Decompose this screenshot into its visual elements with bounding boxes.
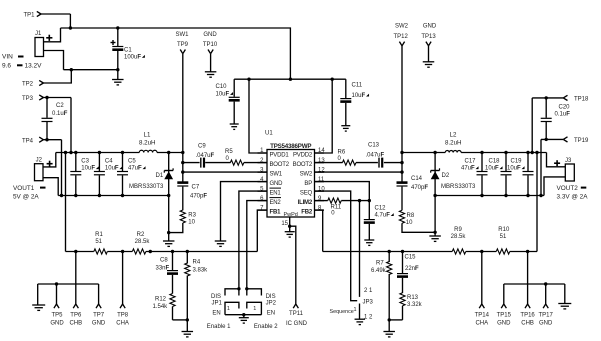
wire rail 2 to ground <box>564 284 566 304</box>
node TP8 tap <box>121 250 124 253</box>
svg-text:EN: EN <box>212 311 220 317</box>
svg-text:JP1: JP1 <box>211 300 222 306</box>
wire EN2 pin 6 <box>247 201 267 289</box>
node R4 tap <box>186 250 189 253</box>
svg-text:C19: C19 <box>511 158 523 164</box>
connector J1 <box>35 31 52 56</box>
ground rail 2 <box>558 304 571 309</box>
svg-text:51: 51 <box>95 239 102 245</box>
ground TP13 <box>423 62 435 67</box>
wire SW1 vertical <box>182 54 184 182</box>
node SW2 at VOUT2 wire <box>400 151 403 154</box>
svg-text:JP2: JP2 <box>266 300 277 306</box>
svg-text:JP3: JP3 <box>363 300 374 306</box>
node pin 1 riser <box>247 78 250 81</box>
svg-text:TP6: TP6 <box>70 313 82 319</box>
capacitor C11 <box>340 79 369 126</box>
svg-text:TP14: TP14 <box>475 313 490 319</box>
svg-text:TP16: TP16 <box>520 313 535 319</box>
svg-text:R1: R1 <box>95 232 103 238</box>
wire J2 plus riser <box>43 153 56 167</box>
node divider 2 foot <box>388 318 391 321</box>
svg-text:R4: R4 <box>193 260 201 266</box>
svg-text:22nF: 22nF <box>405 266 419 272</box>
wire TP10 to ground <box>210 54 212 72</box>
ground C11 <box>341 126 350 131</box>
node R7 tap <box>388 250 391 253</box>
wire SEQ pin 10 <box>315 191 358 301</box>
wire D1 anode to ground <box>168 196 170 242</box>
capacitor C17 <box>461 151 488 197</box>
label VIN <box>2 54 42 70</box>
svg-text:L2: L2 <box>450 132 457 139</box>
svg-text:D1: D1 <box>156 173 164 179</box>
svg-text:VIN: VIN <box>2 54 13 61</box>
resistor R8 <box>399 210 414 226</box>
wire VOUT2 return rail <box>435 195 544 197</box>
wire rail 1 to ground <box>37 284 39 305</box>
svg-text:BOOT2: BOOT2 <box>270 162 290 168</box>
test point TP9 <box>175 32 189 54</box>
wire pin 15 PowerPAD <box>281 217 289 227</box>
wire C1 to ground <box>117 70 119 80</box>
svg-text:MBRS330T3: MBRS330T3 <box>129 184 164 190</box>
svg-text:SW1: SW1 <box>175 32 189 38</box>
svg-text:R5: R5 <box>225 149 233 155</box>
svg-text:TP11: TP11 <box>289 311 304 317</box>
wire ILIM2 pin 9 <box>315 200 370 202</box>
wire divider 2 to ground <box>388 320 390 332</box>
svg-text:EN1: EN1 <box>270 190 282 196</box>
svg-text:C15: C15 <box>405 254 417 260</box>
svg-text:TP2: TP2 <box>22 82 34 88</box>
svg-text:28.5k: 28.5k <box>135 239 151 245</box>
svg-text:C14: C14 <box>411 176 423 182</box>
svg-text:DIS: DIS <box>211 294 221 300</box>
svg-text:TP18: TP18 <box>574 97 589 103</box>
svg-text:47uF: 47uF <box>128 166 142 172</box>
node BOOT2 at SW2 <box>400 161 403 164</box>
svg-text:J1: J1 <box>35 31 42 37</box>
wire VOUT1 return rail <box>58 195 169 197</box>
svg-text:U1: U1 <box>265 131 273 137</box>
test point TP15 <box>497 284 512 327</box>
svg-text:8.2uH: 8.2uH <box>139 139 156 146</box>
wire VOUT2 rail <box>402 152 547 154</box>
svg-text:R3: R3 <box>188 212 196 218</box>
svg-text:DIS: DIS <box>266 294 276 300</box>
svg-text:GND: GND <box>497 321 511 327</box>
svg-text:EN: EN <box>267 311 275 317</box>
svg-text:BP: BP <box>304 181 312 187</box>
svg-text:TP10: TP10 <box>203 42 218 48</box>
svg-text:VOUT2: VOUT2 <box>557 185 579 192</box>
wire J1 plus to VIN rail <box>44 28 61 42</box>
capacitor C2 <box>42 98 68 140</box>
svg-text:10: 10 <box>406 220 413 226</box>
wire PVDD rail <box>234 78 346 80</box>
wire TP3 to VOUT1 rail <box>43 98 71 153</box>
svg-text:3.83k: 3.83k <box>193 267 209 273</box>
label VOUT2 <box>557 185 589 200</box>
test point TP16 <box>520 252 535 327</box>
svg-text:C2: C2 <box>56 103 64 109</box>
jumper JP3 <box>353 288 373 321</box>
capacitor C7 <box>177 183 207 211</box>
wire TP13 to ground <box>428 46 430 62</box>
resistor R7 <box>371 252 392 320</box>
wire FB1 row <box>66 251 258 253</box>
node SW1 at BOOT wire <box>181 161 184 164</box>
svg-text:C12: C12 <box>375 206 387 212</box>
svg-text:0.1uF: 0.1uF <box>555 111 571 117</box>
svg-text:CHB: CHB <box>521 321 534 327</box>
svg-text:SW1: SW1 <box>270 171 283 177</box>
test point TP12 <box>394 24 409 46</box>
svg-text:PVDD1: PVDD1 <box>270 152 290 158</box>
capacitor C13 <box>366 143 385 168</box>
capacitor C4 <box>94 151 123 197</box>
diode D2 <box>431 151 476 197</box>
svg-text:TP7: TP7 <box>93 313 105 319</box>
node BP C12 <box>368 199 371 202</box>
capacitor C20 <box>541 98 570 139</box>
svg-text:0.1uF: 0.1uF <box>52 111 68 117</box>
svg-text:Enable 1: Enable 1 <box>207 324 231 330</box>
resistor R11 <box>328 198 342 217</box>
svg-text:GND: GND <box>203 32 217 38</box>
ground JP3 <box>355 304 366 325</box>
svg-text:Sequence: Sequence <box>330 309 354 315</box>
wire TP19 to return <box>541 139 563 195</box>
wire FB2 pin 8 <box>315 210 323 251</box>
svg-text:C20: C20 <box>559 104 571 110</box>
svg-text:CHA: CHA <box>116 321 129 327</box>
resistor R4 <box>185 252 208 320</box>
node C20 bottom <box>545 138 548 141</box>
svg-text:C18: C18 <box>489 158 501 164</box>
node C8 tap <box>171 250 174 253</box>
node FB2 tap <box>535 151 538 154</box>
capacitor C10 <box>216 79 240 124</box>
svg-text:SEQ: SEQ <box>300 190 313 196</box>
wire GND pin 4 <box>221 182 268 241</box>
node pin 15 <box>288 225 291 228</box>
svg-text:TP5: TP5 <box>51 313 63 319</box>
svg-text:GND: GND <box>270 181 284 187</box>
capacitor C15 <box>397 252 419 294</box>
svg-text:PVDD2: PVDD2 <box>293 152 313 158</box>
svg-text:1: 1 <box>353 307 356 313</box>
svg-text:C13: C13 <box>368 143 380 149</box>
node VIN at PVDD rail <box>289 78 292 81</box>
wire VOUT1 top rail <box>56 152 183 154</box>
svg-text:10uF: 10uF <box>216 91 230 97</box>
node SW1 at VOUT wire <box>181 151 184 154</box>
wire D2 anode to ground <box>434 196 436 237</box>
node TP14 tap <box>480 250 483 253</box>
ground FB1 divider <box>182 332 194 337</box>
node pin 14 riser <box>331 78 334 81</box>
wire TP4 to return <box>43 140 61 196</box>
svg-text:C11: C11 <box>352 82 363 88</box>
svg-text:.047uF: .047uF <box>366 152 385 158</box>
svg-text:R13: R13 <box>407 295 419 301</box>
wire SW2 vertical <box>401 46 403 182</box>
svg-text:TPS54386PWP: TPS54386PWP <box>270 143 311 150</box>
resistor R3 <box>180 210 196 226</box>
ground C10 <box>230 124 239 129</box>
node C15 tap <box>401 250 404 253</box>
svg-text:EN2: EN2 <box>270 200 282 206</box>
svg-text:10: 10 <box>188 220 195 226</box>
svg-text:L1: L1 <box>144 132 151 139</box>
wire input return rail <box>64 69 118 71</box>
connector J3 <box>554 158 574 181</box>
inductor L2 <box>445 132 462 153</box>
svg-text:TP19: TP19 <box>574 138 589 144</box>
wire J3 plus riser <box>547 153 566 167</box>
node TP16 tap <box>526 250 529 253</box>
svg-text:C7: C7 <box>192 185 200 191</box>
label Sequence <box>330 309 354 315</box>
resistor R10 <box>496 227 510 254</box>
node C1 return junction <box>116 68 119 71</box>
wire R12 to R4 foot <box>173 319 188 321</box>
svg-text:C5: C5 <box>128 158 136 164</box>
svg-text:C10: C10 <box>216 84 228 90</box>
svg-text:C8: C8 <box>160 257 168 263</box>
svg-text:3.3V @ 2A: 3.3V @ 2A <box>557 193 589 200</box>
label Enable 2 <box>254 324 278 330</box>
label VOUT1 <box>13 185 46 200</box>
svg-text:R6: R6 <box>338 150 346 156</box>
test point TP14 <box>475 252 490 327</box>
capacitor C12 <box>364 201 394 240</box>
svg-text:33nF: 33nF <box>156 265 170 271</box>
svg-text:SW2: SW2 <box>395 24 409 30</box>
diode D1 <box>129 151 173 197</box>
svg-text:J3: J3 <box>565 158 572 164</box>
resistor R6 <box>338 150 356 166</box>
svg-text:TP13: TP13 <box>421 34 436 40</box>
svg-text:.047uF: .047uF <box>196 153 215 159</box>
ground power stage 2 <box>429 236 441 241</box>
svg-text:TP15: TP15 <box>497 313 512 319</box>
node R8 at D2 ground leg <box>433 231 436 234</box>
svg-text:FB1: FB1 <box>270 209 282 215</box>
svg-text:VOUT1: VOUT1 <box>13 185 35 192</box>
ground rail 1 <box>32 305 45 310</box>
svg-text:4.7uF: 4.7uF <box>375 213 391 219</box>
svg-text:10uF: 10uF <box>105 166 119 172</box>
node TP6 tap <box>74 250 77 253</box>
wire BP branch to JP3 <box>359 201 361 297</box>
capacitor C18 <box>485 151 512 197</box>
svg-text:8.2uH: 8.2uH <box>445 139 462 146</box>
wire BOOT2 pin 13 <box>315 162 403 164</box>
svg-text:R12: R12 <box>155 297 167 303</box>
capacitor C19 <box>507 151 534 197</box>
wire measurement rail 2 <box>504 283 565 285</box>
test point TP13 <box>421 24 437 46</box>
ground power stage 1 <box>163 241 175 246</box>
svg-text:10uF: 10uF <box>352 93 366 99</box>
wire EN1 pin 5 <box>239 191 267 289</box>
wire VIN top rail <box>61 28 291 79</box>
wire FB1 pin 7 <box>257 210 267 251</box>
node R2 FB1 <box>149 250 152 253</box>
wire J1 minus to return rail <box>44 51 64 70</box>
node R4 foot <box>186 318 189 321</box>
node BP branch <box>358 199 361 202</box>
connector J2 <box>35 158 53 181</box>
svg-text:BOOT2: BOOT2 <box>293 162 313 168</box>
test point TP6 <box>69 252 82 327</box>
svg-text:TP8: TP8 <box>117 313 129 319</box>
svg-text:47uF: 47uF <box>461 166 475 172</box>
svg-text:FB2: FB2 <box>301 209 313 215</box>
ground TP10 <box>205 72 217 77</box>
node R3 at D1 ground leg <box>167 231 170 234</box>
wire R3 to ground <box>169 223 183 233</box>
test point TP17 <box>539 282 554 326</box>
svg-text:TP4: TP4 <box>22 138 34 144</box>
wire jumper common <box>225 314 261 316</box>
resistor R2 <box>132 232 150 254</box>
wire pin 1 PVDD1 riser <box>249 79 267 153</box>
svg-text:14: 14 <box>318 148 325 154</box>
ground pin 4 <box>215 241 227 246</box>
wire J3 minus to return <box>544 177 565 196</box>
wire FB2 row <box>323 251 537 253</box>
svg-text:J2: J2 <box>36 158 43 164</box>
svg-text:IC GND: IC GND <box>286 321 308 327</box>
test point TP3 <box>22 95 43 102</box>
capacitor C8 <box>156 252 179 274</box>
inductor L1 <box>139 132 157 153</box>
IC U1 TPS54386PWP <box>258 131 326 219</box>
svg-text:GND: GND <box>92 321 106 327</box>
svg-text:10uF: 10uF <box>81 166 95 172</box>
svg-text:470pF: 470pF <box>411 185 428 191</box>
wire TP1 to VIN rail <box>41 14 70 28</box>
node C2 top <box>45 96 48 99</box>
svg-text:470pF: 470pF <box>190 193 207 199</box>
wire BP pin 11 <box>315 182 370 201</box>
ground ILIM2 divider <box>383 332 395 337</box>
svg-text:CHB: CHB <box>69 321 82 327</box>
svg-text:3.32k: 3.32k <box>407 302 423 308</box>
svg-text:51: 51 <box>500 234 507 240</box>
node TP18 at rail <box>531 151 534 154</box>
svg-text:GND: GND <box>50 321 64 327</box>
svg-text:1: 1 <box>253 306 256 312</box>
svg-text:TP9: TP9 <box>177 42 189 48</box>
svg-text:Enable 2: Enable 2 <box>254 324 278 330</box>
node TP3 at VOUT1 rail <box>69 151 72 154</box>
resistor R5 <box>225 149 244 165</box>
svg-text:10uF: 10uF <box>485 166 499 172</box>
wire J2 minus to return <box>43 178 58 196</box>
node TP2 junction <box>70 68 73 71</box>
svg-text:TP3: TP3 <box>22 96 34 102</box>
svg-text:28.5k: 28.5k <box>451 234 467 240</box>
ground pin 15 <box>285 226 295 237</box>
wire TP18 to VOUT2 rail <box>532 98 563 153</box>
node TP1/VIN junction <box>69 26 72 29</box>
svg-text:2 1: 2 1 <box>364 288 373 294</box>
node SW1 at pin 3 wire <box>181 170 184 173</box>
capacitor C3 <box>70 151 99 197</box>
label Enable 1 <box>207 324 231 330</box>
svg-text:R9: R9 <box>454 227 462 233</box>
ground jumpers <box>239 315 249 323</box>
resistor R13 <box>400 293 423 320</box>
svg-text:C3: C3 <box>81 158 89 164</box>
node C2 bottom <box>45 138 48 141</box>
capacitor C14 <box>397 176 429 210</box>
test point TP11 <box>286 226 308 327</box>
node SW2 pin 12 <box>400 170 403 173</box>
wire R8 to ground leg <box>402 223 435 232</box>
svg-text:1: 1 <box>227 306 230 312</box>
svg-text:MBRS330T3: MBRS330T3 <box>441 184 476 190</box>
svg-text:C9: C9 <box>198 143 206 149</box>
test point TP2 <box>22 80 43 87</box>
svg-text:R11: R11 <box>331 204 342 210</box>
svg-text:TP17: TP17 <box>539 313 554 319</box>
svg-text:15: 15 <box>281 221 288 227</box>
svg-text:10uF: 10uF <box>507 166 521 172</box>
svg-text:R8: R8 <box>407 213 415 219</box>
test point TP1 <box>24 11 42 18</box>
node TP4 at return rail <box>60 194 63 197</box>
node TP19 at return rail <box>539 194 542 197</box>
ground input <box>112 80 124 85</box>
wire FB1 tap from VOUT1 <box>65 153 67 252</box>
capacitor C9 <box>196 143 215 167</box>
svg-text:C17: C17 <box>465 158 477 164</box>
svg-text:PwPd: PwPd <box>284 212 298 218</box>
svg-text:TP12: TP12 <box>394 34 409 40</box>
resistor R9 <box>451 227 467 254</box>
wire pin 14 PVDD2 riser <box>315 79 333 153</box>
svg-text:1.54k: 1.54k <box>153 304 169 310</box>
test point TP7 <box>92 284 106 327</box>
jumper JP1 <box>211 287 241 317</box>
svg-text:ILIM2: ILIM2 <box>298 200 313 206</box>
wire TP2 to return rail <box>43 70 71 83</box>
svg-text:R2: R2 <box>137 232 145 238</box>
svg-text:5V @ 2A: 5V @ 2A <box>13 193 39 200</box>
svg-text:9.6: 9.6 <box>2 63 11 70</box>
wire FB2 tap from VOUT2 <box>536 153 538 252</box>
svg-text:GND: GND <box>539 321 553 327</box>
test point TP8 <box>116 252 129 327</box>
svg-text:6.49k: 6.49k <box>371 268 387 274</box>
jumper JP2 <box>245 287 277 317</box>
svg-text:R7: R7 <box>376 260 384 266</box>
wire measurement rail 1 <box>38 283 99 285</box>
svg-text:100uF: 100uF <box>124 54 141 60</box>
resistor R1 <box>94 232 108 254</box>
test point TP18 <box>563 95 589 102</box>
wire R7 R13 common <box>389 319 402 321</box>
capacitor C5 <box>117 151 146 197</box>
ground C12 <box>364 240 374 245</box>
svg-text:D2: D2 <box>442 173 450 179</box>
